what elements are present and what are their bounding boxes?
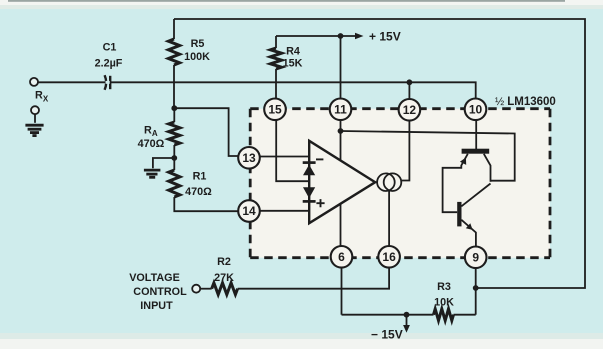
svg-text:+ 15V: + 15V [369,30,401,44]
svg-text:470Ω: 470Ω [185,186,212,198]
svg-text:2.2µF: 2.2µF [95,58,123,70]
svg-text:27K: 27K [214,272,234,284]
svg-text:½ LM13600: ½ LM13600 [495,96,556,108]
svg-text:12: 12 [403,103,417,117]
svg-text:13: 13 [242,151,256,165]
svg-text:R2: R2 [217,256,231,268]
svg-text:15K: 15K [283,58,303,70]
svg-text:9: 9 [472,251,479,265]
svg-text:16: 16 [382,250,396,264]
svg-text:R3: R3 [437,281,451,293]
svg-text:470Ω: 470Ω [138,138,165,150]
svg-text:10: 10 [469,103,483,117]
svg-text:6: 6 [338,250,345,264]
svg-text:15: 15 [268,103,282,117]
svg-text:14: 14 [242,204,256,218]
svg-text:100K: 100K [184,51,210,63]
svg-text:R5: R5 [191,38,205,50]
svg-text:11: 11 [334,103,347,117]
svg-text:− 15V: − 15V [371,327,403,341]
svg-text:INPUT: INPUT [140,300,173,312]
svg-text:R1: R1 [193,171,207,183]
svg-text:CONTROL: CONTROL [133,286,187,298]
svg-text:C1: C1 [103,42,117,54]
svg-text:10K: 10K [434,297,454,309]
svg-text:VOLTAGE: VOLTAGE [129,272,180,284]
svg-text:R4: R4 [286,46,300,58]
